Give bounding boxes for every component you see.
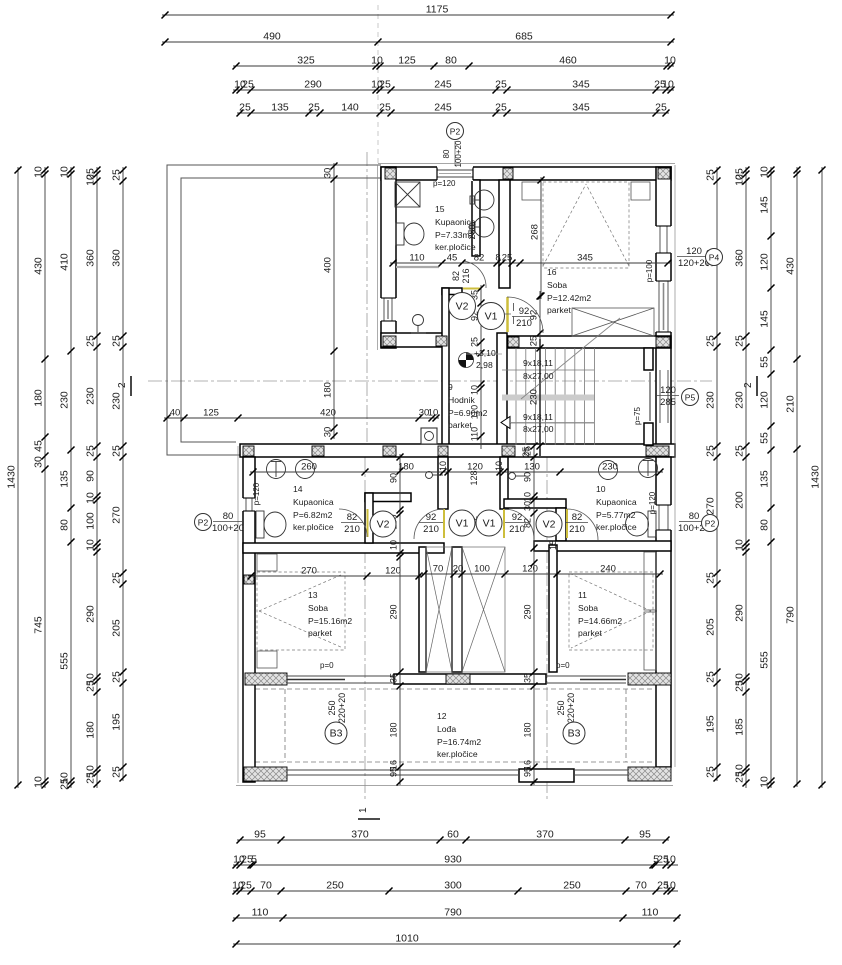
- door V1 right apartment entry leaf and swing: [503, 509, 505, 538]
- svg-text:30: 30: [323, 168, 334, 179]
- svg-text:P=15.16m2: P=15.16m2: [308, 616, 352, 626]
- svg-text:20: 20: [453, 564, 464, 575]
- column hatch lower band 2: [312, 446, 324, 456]
- column hatch rooms south center: [446, 674, 470, 684]
- facade line top: [378, 163, 675, 165]
- svg-text:10: 10: [59, 166, 71, 178]
- svg-text:10: 10: [85, 492, 97, 504]
- stairwell treads: [502, 348, 594, 445]
- facade line right: [674, 165, 676, 767]
- svg-text:230: 230: [705, 391, 717, 409]
- svg-text:555: 555: [59, 652, 71, 670]
- svg-text:430: 430: [785, 257, 797, 275]
- svg-text:p=120: p=120: [252, 482, 261, 505]
- wall left upper exterior: [381, 167, 396, 348]
- stair stringer line: [539, 339, 541, 456]
- column hatch lower band 3: [383, 446, 396, 456]
- svg-text:95: 95: [254, 829, 266, 841]
- svg-text:1430: 1430: [6, 465, 18, 489]
- dimension stair width 230: [539, 291, 541, 449]
- svg-text:180: 180: [323, 382, 334, 398]
- marker B3 right balcony door: [563, 722, 585, 744]
- svg-text:120: 120: [660, 385, 676, 396]
- svg-text:9x18,11: 9x18,11: [523, 412, 553, 422]
- svg-text:P2: P2: [705, 519, 716, 529]
- column hatch bath15 south-west: [383, 336, 396, 346]
- svg-text:10: 10: [371, 55, 383, 67]
- svg-text:230: 230: [59, 391, 71, 409]
- svg-text:290: 290: [85, 605, 97, 623]
- column hatch lower band 4: [438, 446, 448, 456]
- svg-text:25: 25: [240, 880, 252, 892]
- wall bathroom14 south: [243, 543, 444, 553]
- column hatch top-right corner: [658, 168, 670, 179]
- svg-text:25: 25: [59, 778, 71, 790]
- svg-text:1430: 1430: [810, 465, 822, 489]
- ceiling lamp symbol bathroom10 a: [599, 461, 618, 480]
- svg-text:10: 10: [85, 174, 97, 186]
- svg-text:268: 268: [530, 224, 541, 240]
- section mark 1 bottom: [358, 807, 380, 819]
- svg-text:55: 55: [759, 432, 771, 444]
- svg-text:p=0: p=0: [556, 661, 570, 670]
- svg-text:200: 200: [734, 491, 746, 509]
- svg-text:P4: P4: [709, 253, 720, 263]
- svg-text:25: 25: [85, 680, 97, 692]
- svg-text:90: 90: [85, 470, 97, 482]
- svg-text:45: 45: [447, 253, 458, 264]
- marker B3 left balcony door: [325, 722, 347, 744]
- svg-text:25: 25: [85, 445, 97, 457]
- svg-text:100+20: 100+20: [454, 140, 463, 167]
- svg-text:25: 25: [111, 335, 123, 347]
- svg-text:120: 120: [686, 246, 702, 257]
- svg-text:205: 205: [111, 619, 123, 637]
- svg-text:685: 685: [515, 31, 533, 43]
- svg-text:290: 290: [734, 604, 746, 622]
- balcony sliding door room13 (p=0): [287, 676, 394, 683]
- svg-text:100: 100: [85, 512, 97, 530]
- svg-text:Soba: Soba: [547, 280, 567, 290]
- svg-text:210: 210: [516, 318, 532, 329]
- svg-text:9x18,11: 9x18,11: [523, 358, 553, 368]
- svg-text:9: 9: [448, 382, 453, 392]
- svg-text:+3,10: +3,10: [474, 348, 496, 358]
- dimension column left 430/180/745: [44, 167, 46, 788]
- loggia dashed edge bottom: [255, 761, 652, 763]
- svg-text:45: 45: [33, 440, 45, 452]
- svg-text:220+20: 220+20: [566, 693, 576, 723]
- wall hallway9 nib: [442, 288, 462, 295]
- dimension row bottom 95/370/60: [237, 839, 669, 841]
- svg-text:240: 240: [600, 564, 616, 575]
- svg-text:P5: P5: [685, 393, 696, 403]
- svg-text:930: 930: [444, 854, 462, 866]
- svg-text:8x27,00: 8x27,00: [523, 371, 554, 381]
- level marker +3,10 / 2,98: [459, 348, 503, 370]
- stair direction arrow: [501, 417, 510, 429]
- svg-text:12: 12: [437, 711, 447, 721]
- svg-text:25: 25: [379, 79, 391, 91]
- marker P2 circle left: [195, 514, 212, 531]
- centerline vertical terrace axis: [366, 152, 368, 455]
- svg-text:82: 82: [572, 512, 583, 523]
- loggia railing west part: [287, 770, 519, 775]
- washing machine bathroom15: [395, 182, 420, 207]
- svg-text:25: 25: [705, 766, 717, 778]
- wall hallway9 west: [442, 288, 449, 446]
- svg-text:205: 205: [705, 618, 717, 636]
- svg-text:parket: parket: [547, 305, 571, 315]
- svg-text:V2: V2: [377, 519, 390, 531]
- svg-text:245: 245: [434, 102, 452, 114]
- svg-text:745: 745: [33, 616, 45, 634]
- section mark 2 left: [117, 376, 131, 396]
- label door bathroom10 82/210: [566, 512, 588, 535]
- wall right upper exterior: [656, 167, 671, 457]
- svg-text:P=5.77m2: P=5.77m2: [596, 510, 636, 520]
- balcony sliding door room11 (p=0): [546, 676, 626, 683]
- svg-text:25: 25: [734, 335, 746, 347]
- stair mid landing band: [502, 395, 594, 401]
- shower screen bathroom15: [396, 266, 439, 268]
- door handle symbol stairhall left: [426, 472, 444, 479]
- svg-text:300: 300: [444, 880, 462, 892]
- column hatch left wall mid: [244, 575, 254, 584]
- svg-text:30: 30: [523, 501, 533, 511]
- svg-text:210: 210: [423, 524, 439, 535]
- svg-text:10: 10: [438, 461, 448, 471]
- svg-text:Hodnik: Hodnik: [448, 395, 475, 405]
- svg-text:195: 195: [111, 713, 123, 731]
- svg-text:25: 25: [379, 102, 391, 114]
- marker P2 circle top: [447, 123, 464, 140]
- svg-text:P=6.90m2: P=6.90m2: [448, 408, 488, 418]
- svg-text:ker.pločice: ker.pločice: [435, 242, 476, 252]
- svg-text:370: 370: [536, 829, 554, 841]
- svg-text:180: 180: [389, 722, 399, 737]
- svg-text:25: 25: [655, 102, 667, 114]
- dimension row top 1175: [162, 14, 674, 16]
- svg-text:410: 410: [59, 253, 71, 271]
- svg-text:10: 10: [389, 540, 399, 550]
- dimension column right 360/230/270/205/195: [716, 167, 718, 781]
- dimension terrace bottom row: [164, 417, 439, 419]
- balcony door room16 east wall (P4 120/120+20): [655, 226, 672, 253]
- svg-text:25: 25: [529, 336, 540, 347]
- svg-text:180: 180: [33, 389, 45, 407]
- svg-text:80: 80: [689, 511, 700, 522]
- dimension hallway9 vertical: [480, 285, 482, 449]
- svg-text:parket: parket: [578, 628, 602, 638]
- room label 9 Hodnik: [448, 382, 488, 430]
- sink basin 1 bathroom15: [470, 190, 494, 210]
- centerline vertical left loggia axis: [364, 457, 366, 800]
- svg-text:110: 110: [252, 907, 269, 919]
- label window P2 right 80/100+20: [678, 511, 710, 534]
- svg-text:p=100: p=100: [645, 259, 654, 282]
- column hatch top-center: [503, 168, 513, 179]
- marker V2 bathroom15 door: [449, 293, 476, 320]
- svg-text:270: 270: [705, 497, 717, 515]
- svg-text:Kupaonica: Kupaonica: [293, 497, 334, 507]
- svg-text:92: 92: [426, 512, 437, 523]
- label door V1 left 92/210: [419, 512, 443, 535]
- svg-text:325: 325: [297, 55, 315, 67]
- wall room16 south / stairwell north: [508, 336, 671, 348]
- label window P2 left 80/100+20: [212, 511, 244, 534]
- svg-text:P2: P2: [450, 127, 461, 137]
- svg-text:130: 130: [524, 462, 540, 473]
- svg-text:25: 25: [705, 671, 717, 683]
- svg-text:13: 13: [308, 590, 318, 600]
- svg-text:430: 430: [33, 257, 45, 275]
- stair break diagonal: [521, 318, 620, 399]
- wall stairhall east: [500, 457, 508, 509]
- wall room13 east: [419, 547, 426, 672]
- svg-text:245: 245: [434, 79, 452, 91]
- closet X-box right: [462, 547, 505, 672]
- room label 11 Soba: [578, 590, 622, 638]
- wall stairwell east lower piece: [644, 423, 653, 445]
- dimension column right 430/210/790: [796, 167, 798, 787]
- svg-text:15: 15: [548, 540, 558, 550]
- svg-text:25: 25: [242, 79, 254, 91]
- svg-text:25: 25: [111, 766, 123, 778]
- svg-text:10: 10: [33, 776, 45, 788]
- svg-text:10: 10: [759, 776, 771, 788]
- window bathroom15 west wall: [380, 298, 397, 321]
- svg-text:ker.pločice: ker.pločice: [437, 749, 478, 759]
- column hatch lower band 5: [502, 446, 515, 456]
- svg-text:120+20: 120+20: [678, 258, 710, 269]
- svg-text:100: 100: [474, 564, 490, 575]
- dimension room11 row 70/20/100/120/240: [421, 573, 663, 575]
- svg-text:B3: B3: [568, 728, 581, 740]
- loggia dashed edge top: [255, 688, 652, 690]
- svg-text:25: 25: [495, 102, 507, 114]
- column hatch bath15 south-east: [436, 336, 447, 346]
- svg-text:490: 490: [263, 31, 281, 43]
- svg-text:82: 82: [347, 512, 358, 523]
- wall bathroom14 east nib: [365, 493, 411, 502]
- wall central upper (hall/room16): [499, 180, 510, 288]
- svg-text:210: 210: [509, 524, 525, 535]
- svg-text:10: 10: [470, 385, 480, 395]
- dimension lower-left vertical 90/100/290/180: [399, 454, 401, 785]
- svg-text:10: 10: [85, 539, 97, 551]
- dimension row top 490/685: [162, 41, 674, 43]
- terrace outline outer: [167, 165, 381, 455]
- svg-text:25: 25: [111, 572, 123, 584]
- dimension row top 25/290/245/345: [233, 89, 674, 91]
- svg-text:92: 92: [512, 512, 523, 523]
- bed room13 with bedside tables: [257, 554, 345, 668]
- svg-text:10: 10: [494, 461, 504, 471]
- door V2 bathroom10 leaf and swing: [566, 509, 568, 538]
- window axis line top P2: [454, 141, 456, 168]
- svg-text:5: 5: [251, 854, 257, 866]
- svg-text:11: 11: [578, 590, 587, 600]
- svg-text:790: 790: [444, 907, 462, 919]
- toilet bathroom10: [626, 511, 657, 537]
- svg-text:25: 25: [470, 337, 480, 347]
- svg-text:230: 230: [529, 389, 540, 405]
- svg-text:ker.pločice: ker.pločice: [596, 522, 637, 532]
- section mark 2 right: [743, 376, 757, 396]
- svg-text:p=120: p=120: [433, 179, 456, 188]
- svg-text:30: 30: [33, 456, 45, 468]
- marker P4 circle: [706, 249, 723, 266]
- dimension row bottom 1010: [233, 943, 680, 945]
- svg-text:270: 270: [301, 566, 317, 577]
- door V1 hallway to room16 leaf and swing: [506, 297, 509, 332]
- room label 14 Kupaonica: [293, 484, 334, 532]
- label P5 120/285: [657, 385, 679, 408]
- svg-text:120: 120: [522, 564, 538, 575]
- column hatch room16 south-west: [508, 337, 519, 347]
- svg-text:Lođa: Lođa: [437, 724, 456, 734]
- svg-text:140: 140: [341, 102, 359, 114]
- svg-text:80: 80: [223, 511, 234, 522]
- svg-text:110: 110: [409, 253, 424, 264]
- wardrobe room11 east wall: [644, 552, 656, 670]
- centerline vertical right loggia axis: [546, 457, 548, 800]
- svg-text:30: 30: [323, 427, 334, 438]
- wall closet divider: [452, 547, 462, 672]
- svg-text:V2: V2: [456, 301, 469, 313]
- svg-text:80: 80: [759, 519, 771, 531]
- svg-text:290: 290: [523, 604, 533, 619]
- svg-text:10: 10: [664, 854, 676, 866]
- svg-text:135: 135: [759, 470, 771, 488]
- svg-text:370: 370: [351, 829, 369, 841]
- svg-text:90: 90: [523, 472, 533, 482]
- svg-text:230: 230: [85, 387, 97, 405]
- label window P2 top 80/100+20 rotated: [442, 140, 463, 167]
- svg-text:25: 25: [308, 102, 320, 114]
- svg-text:25: 25: [85, 335, 97, 347]
- svg-text:135: 135: [59, 470, 71, 488]
- terrace outline inner: [181, 178, 381, 442]
- svg-text:25: 25: [523, 446, 533, 456]
- label door bathroom14 82/210: [341, 512, 363, 535]
- svg-text:25: 25: [705, 335, 717, 347]
- svg-text:2: 2: [117, 382, 128, 388]
- svg-text:p=75: p=75: [633, 406, 642, 425]
- loggia dashed edge left: [284, 689, 286, 762]
- wall bathroom14 east: [365, 493, 373, 543]
- svg-text:25: 25: [502, 253, 513, 264]
- dimension column left 410/230/555: [70, 167, 72, 788]
- dimension column left 360/230/270/205/195: [122, 167, 124, 781]
- loggia railing east part: [574, 770, 628, 775]
- wall central lower (hall/stair): [497, 333, 507, 446]
- svg-text:250: 250: [556, 700, 566, 715]
- svg-text:25: 25: [734, 445, 746, 457]
- svg-text:210: 210: [344, 524, 360, 535]
- dimension row bottom 930: [233, 864, 678, 866]
- svg-text:210: 210: [569, 524, 585, 535]
- window bathroom10 east wall (p=120): [655, 505, 672, 530]
- svg-text:10: 10: [734, 174, 746, 186]
- svg-text:25: 25: [85, 772, 97, 784]
- svg-text:95: 95: [523, 767, 533, 777]
- svg-text:210: 210: [785, 395, 797, 413]
- svg-text:135: 135: [271, 102, 289, 114]
- wall stairhall west: [438, 457, 448, 509]
- wall lower units north band: [240, 444, 675, 457]
- svg-text:92: 92: [519, 306, 530, 317]
- svg-text:16: 16: [547, 267, 557, 277]
- svg-text:25: 25: [734, 680, 746, 692]
- marker P2 circle right: [702, 515, 719, 532]
- dimension column left 1430: [17, 167, 19, 788]
- svg-text:25: 25: [734, 771, 746, 783]
- svg-text:10: 10: [662, 79, 674, 91]
- room label 12 Lođa: [437, 711, 481, 759]
- dimension row bottom 110/790/110: [233, 917, 680, 919]
- svg-text:8: 8: [495, 253, 500, 264]
- label door V1 right 92/210: [505, 512, 529, 535]
- svg-text:82: 82: [451, 271, 461, 281]
- svg-text:10: 10: [523, 492, 533, 502]
- ceiling lamp symbol bathroom10 b: [639, 459, 658, 478]
- dimension room13 row 270/120: [248, 575, 422, 577]
- svg-text:230: 230: [734, 391, 746, 409]
- closet X-box left: [426, 547, 452, 672]
- ceiling lamp symbol bathroom14 b: [296, 460, 315, 479]
- svg-text:P=7.33m2: P=7.33m2: [435, 230, 475, 240]
- svg-text:parket: parket: [308, 628, 332, 638]
- svg-text:95: 95: [639, 829, 651, 841]
- svg-text:P=6.82m2: P=6.82m2: [293, 510, 333, 520]
- svg-text:25: 25: [111, 169, 123, 181]
- svg-text:230: 230: [111, 392, 123, 410]
- door V2 bathroom14 leaf and swing: [367, 509, 369, 537]
- column hatch lower band 6: [646, 446, 669, 456]
- svg-text:360: 360: [85, 249, 97, 267]
- dimension room16 vertical 268: [540, 177, 542, 299]
- dimension row top 25/135/25/140: [237, 112, 669, 114]
- dimension column right 1430: [821, 167, 823, 788]
- svg-text:216: 216: [461, 268, 471, 283]
- dimension lower-right vertical 90/82/290/180: [533, 443, 535, 785]
- wall rooms south center band: [394, 674, 546, 684]
- column hatch lower band 1: [243, 446, 254, 456]
- svg-text:110: 110: [642, 907, 659, 919]
- dimension row top 325..460: [233, 65, 674, 67]
- svg-text:95: 95: [389, 767, 399, 777]
- svg-text:P=14.66m2: P=14.66m2: [578, 616, 622, 626]
- dimension column right 145/120/145/55: [770, 167, 772, 788]
- svg-text:p=0: p=0: [320, 661, 334, 670]
- svg-text:345: 345: [577, 253, 593, 264]
- marker V1 left entry door: [449, 510, 475, 536]
- svg-text:25: 25: [111, 671, 123, 683]
- grid dashed line top: [377, 5, 379, 163]
- svg-text:B3: B3: [330, 728, 343, 740]
- svg-text:2,98: 2,98: [476, 360, 493, 370]
- svg-text:Soba: Soba: [578, 603, 598, 613]
- window W1 top wall (80/100+20): [437, 166, 473, 181]
- ceiling lamp symbol bathroom14 a: [267, 460, 286, 479]
- svg-text:40: 40: [170, 408, 181, 419]
- svg-text:60: 60: [447, 829, 459, 841]
- svg-text:Kupaonica: Kupaonica: [596, 497, 637, 507]
- svg-text:128: 128: [469, 470, 479, 485]
- svg-text:120: 120: [759, 391, 771, 409]
